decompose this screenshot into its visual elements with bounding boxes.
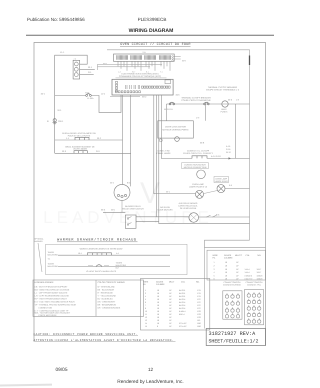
connector J2 grid	[245, 290, 264, 325]
connector strip P2	[114, 54, 175, 61]
svg-text:18: 18	[225, 268, 227, 271]
junction arrow	[229, 157, 231, 159]
resistor lights element	[75, 137, 89, 140]
EOC internal component ticks	[126, 85, 140, 89]
svg-text:LAMPE FOUR: LAMPE FOUR	[215, 180, 229, 183]
svg-text:1/86: 1/86	[197, 322, 201, 325]
svg-text:18: 18	[157, 289, 159, 292]
svg-text:GN-1: GN-1	[58, 120, 64, 123]
switch door lock aux	[159, 139, 162, 142]
svg-text:WARMER: WARMER	[34, 240, 43, 243]
svg-text:MULT/T: MULT/T	[235, 254, 243, 257]
svg-text:14: 14	[145, 322, 147, 325]
svg-text:CONNECTEUR/EOC: CONNECTEUR/EOC	[223, 283, 242, 286]
connector pins group 3	[145, 55, 156, 59]
svg-text:LO LIGHT SWITCH WARM LIGHTS: LO LIGHT SWITCH WARM LIGHTS	[86, 270, 117, 273]
svg-text:36-1: 36-1	[103, 63, 108, 66]
svg-text:11: 11	[145, 313, 147, 316]
svg-text:MOTEUR VERROU PORTE: MOTEUR VERROU PORTE	[162, 128, 189, 131]
svg-text:1-3: 1-3	[118, 70, 121, 73]
svg-text:CONNECT. PNL: CONNECT. PNL	[247, 283, 261, 286]
svg-text:ELECTRONIC OVEN CONTROL (EOC): ELECTRONIC OVEN CONTROL (EOC)	[122, 73, 159, 76]
svg-text:4: 4	[214, 271, 215, 274]
svg-text:1/517: 1/517	[257, 271, 262, 274]
svg-text:8: 8	[145, 307, 146, 310]
svg-text:6: 6	[214, 277, 215, 280]
motor M3 convection fan	[114, 184, 130, 200]
wire collector 1	[98, 63, 163, 65]
svg-text:BL - BLUE/BLEU: BL - BLUE/BLEU	[98, 297, 114, 300]
wire stubs strip right	[174, 57, 181, 60]
svg-text:B-MB-4: B-MB-4	[179, 310, 185, 313]
svg-text:1/32: 1/32	[197, 310, 201, 313]
svg-text:10-1: 10-1	[41, 93, 46, 96]
wire bus 4	[161, 95, 192, 158]
wire collector 2	[98, 66, 151, 68]
svg-text:FOUR ET DE LA PORTE: FOUR ET DE LA PORTE	[68, 134, 91, 137]
wire lamp to frame	[225, 188, 250, 190]
svg-text:VOUTE 3400W: VOUTE 3400W	[73, 148, 87, 151]
svg-text:36-2: 36-2	[142, 96, 147, 99]
wire drop right	[235, 104, 237, 158]
svg-text:18: 18	[225, 275, 227, 278]
svg-text:18: 18	[157, 301, 159, 304]
svg-text:BK-251: BK-251	[179, 292, 185, 295]
svg-text:NO.: NO.	[258, 254, 262, 257]
svg-text:PLES399ECB: PLES399ECB	[138, 17, 167, 22]
relay door lock motor box	[158, 121, 194, 138]
svg-text:1/86: 1/86	[197, 325, 201, 328]
svg-text:DOOR LOCK MOTOR: DOOR LOCK MOTOR	[165, 126, 186, 129]
parts table upper box	[207, 250, 266, 280]
wire L1 loop	[55, 55, 87, 95]
svg-text:BK-254: BK-254	[179, 304, 185, 307]
svg-text:GN - GREEN/VERT: GN - GREEN/VERT	[98, 300, 117, 303]
svg-text:6: 6	[145, 301, 146, 304]
parts table box	[141, 279, 210, 331]
svg-text:ATTENTION:COUPEZ L'ALIMENTATIO: ATTENTION:COUPEZ L'ALIMENTATION AVANT D'…	[34, 338, 174, 342]
switch S1	[207, 215, 217, 217]
svg-text:4: 4	[145, 295, 146, 298]
caution line 2	[34, 338, 176, 342]
svg-text:1/32: 1/32	[197, 313, 201, 316]
header rule	[26, 34, 274, 36]
ground symbol N	[53, 119, 57, 124]
table header	[143, 281, 200, 287]
wire relay out upper	[136, 216, 156, 218]
svg-text:W-11 D-5: W-11 D-5	[164, 108, 174, 111]
svg-text:18: 18	[225, 277, 227, 280]
svg-text:13: 13	[145, 319, 147, 322]
svg-text:10-1: 10-1	[78, 252, 82, 255]
wire drop to lock box	[205, 104, 207, 121]
svg-text:Y - YELLOW/JAUNE: Y - YELLOW/JAUNE	[98, 294, 117, 297]
svg-text:BK-254: BK-254	[179, 298, 185, 301]
wire collector stub	[97, 64, 99, 70]
svg-text:18: 18	[157, 292, 159, 295]
svg-text:COMM. LAMPE: COMM. LAMPE	[156, 152, 171, 155]
neutral bus wire	[54, 96, 56, 154]
svg-text:R.F - RIGHT FRONT/AVANT DROIT: R.F - RIGHT FRONT/AVANT DROIT	[35, 297, 68, 300]
svg-text:2: 2	[214, 264, 215, 267]
svg-text:1/37: 1/37	[197, 304, 201, 307]
leader line	[38, 243, 42, 272]
table upper header	[213, 254, 262, 259]
svg-text:COUPE-CIRCUIT THERMIQUE L-2: COUPE-CIRCUIT THERMIQUE L-2	[206, 89, 240, 92]
connector J1 grid	[223, 291, 242, 319]
svg-text:12: 12	[148, 367, 154, 372]
label oven lamp boxed	[214, 177, 229, 183]
svg-text:L1-30A: L1-30A	[87, 97, 94, 100]
svg-text:Rendered by LeadVenture, Inc.: Rendered by LeadVenture, Inc.	[117, 379, 183, 385]
svg-text:LEADVENTURE: LEADVENTURE	[43, 208, 213, 227]
svg-text:BK-251: BK-251	[179, 289, 185, 292]
lamp L2	[217, 185, 225, 193]
terminal block TB1	[73, 60, 80, 79]
svg-text:1/3618: 1/3618	[257, 275, 263, 278]
svg-text:15: 15	[145, 325, 147, 328]
EOC right pin header	[142, 86, 171, 88]
svg-text:18: 18	[157, 304, 159, 307]
legend box	[33, 280, 144, 316]
EOC sub connector box	[165, 80, 171, 84]
svg-text:CALIBRE: CALIBRE	[224, 256, 233, 259]
wire W neutral from terminal	[80, 68, 95, 70]
table rows	[145, 289, 201, 328]
svg-text:1/3618: 1/3618	[257, 277, 263, 280]
svg-text:1/37: 1/37	[197, 301, 201, 304]
svg-text:BDE-4: BDE-4	[179, 313, 185, 316]
resistor broil element	[74, 151, 87, 154]
relay K1 blower	[125, 215, 136, 228]
thermostat warmer	[96, 265, 102, 267]
svg-text:L1-1: L1-1	[60, 51, 65, 54]
wire step boundary	[205, 240, 266, 247]
svg-text:PORTE MOTORISE: PORTE MOTORISE	[39, 314, 58, 317]
svg-text:WARM ELEMENT/ELEMENT DE SERRE: WARM ELEMENT/ELEMENT DE SERRE 450W	[80, 247, 123, 250]
wire lamp link	[204, 191, 218, 194]
svg-text:18: 18	[157, 316, 159, 319]
legend rows	[35, 285, 77, 316]
wire drop to lock box left	[166, 104, 168, 121]
lamp L1	[196, 190, 204, 198]
table upper rows	[214, 261, 263, 280]
warmer drawer box	[46, 244, 187, 274]
svg-text:ETN-457: ETN-457	[179, 322, 187, 325]
svg-text:LAMPE FOUR N-13: LAMPE FOUR N-13	[189, 185, 208, 188]
wire bus 1	[154, 95, 196, 194]
svg-text:18: 18	[157, 322, 159, 325]
svg-text:COMM 2: COMM 2	[245, 275, 253, 278]
svg-text:BR - BROWN/BRUN: BR - BROWN/BRUN	[98, 303, 117, 306]
wire enclosure left edge	[204, 248, 206, 329]
motor bias circle	[222, 101, 228, 107]
connector end circles	[172, 56, 174, 62]
svg-text:5: 5	[214, 275, 215, 278]
svg-text:T-1: T-1	[48, 257, 51, 260]
svg-text:1/37: 1/37	[197, 298, 201, 301]
wire into relay	[103, 211, 125, 213]
svg-text:COL/TXT: COL/TXT	[245, 277, 254, 280]
resistor warm element	[88, 253, 112, 255]
fuse F1	[169, 102, 175, 105]
wire lower return	[159, 223, 250, 225]
svg-text:SHEET/FEUILLE:1/2: SHEET/FEUILLE:1/2	[209, 338, 259, 344]
motor M1 door lock	[175, 137, 180, 142]
svg-text:7: 7	[145, 304, 146, 307]
op-amp U1 EOC board	[112, 79, 173, 95]
svg-text:BK - BLACK/NOIR: BK - BLACK/NOIR	[98, 288, 115, 291]
wire L1 feed	[55, 95, 86, 97]
svg-text:COLOR CODES OF WIRING: COLOR CODES OF WIRING	[98, 281, 126, 284]
svg-text:Publication No: 5995449856: Publication No: 5995449856	[27, 17, 85, 22]
resistor convection element	[192, 156, 207, 159]
section title OVEN CIRCUIT	[120, 42, 191, 47]
svg-text:10: 10	[145, 310, 147, 313]
svg-text:T.P - THERMAL PROTECTOR/PROTEC: T.P - THERMAL PROTECTOR/PROTECTEUR	[35, 303, 77, 306]
scan edge artifact	[0, 384, 52, 387]
svg-text:L.L - LEFT FRONT/AVANT GAUCHE: L.L - LEFT FRONT/AVANT GAUCHE	[35, 291, 68, 294]
svg-text:FUSES: FUSES	[221, 111, 228, 114]
svg-text:1/37: 1/37	[197, 307, 201, 310]
fuse F2	[204, 102, 210, 105]
svg-text:5: 5	[145, 298, 146, 301]
wire below EOC	[110, 96, 140, 98]
svg-text:ETN-457: ETN-457	[179, 325, 187, 328]
wire fan to relay	[121, 200, 123, 212]
label convection motor	[182, 163, 209, 169]
svg-text:COUPE-CIRCUIT THERMIQUE: COUPE-CIRCUIT THERMIQUE	[181, 99, 211, 102]
wire lights row	[55, 139, 123, 141]
dark tick on inner frame	[249, 56, 251, 66]
svg-text:18: 18	[157, 307, 159, 310]
svg-text:18: 18	[157, 313, 159, 316]
wire thermal cutoff	[167, 103, 250, 105]
svg-text:B-2: B-2	[116, 266, 119, 269]
svg-text:18: 18	[225, 264, 227, 267]
svg-text:318271927 REV:A: 318271927 REV:A	[209, 331, 257, 337]
svg-text:CAUTION: DISCONNECT POWER BEFO: CAUTION: DISCONNECT POWER BEFORE SERVICI…	[34, 333, 138, 336]
svg-text:8: 8	[157, 325, 158, 328]
svg-text:W - WHITE/BLANC: W - WHITE/BLANC	[98, 285, 116, 288]
wire relay out	[136, 221, 159, 223]
inner oven-circuit frame	[107, 50, 250, 240]
svg-text:L.R - LEFT REAR/ARRIERE GAUCHE: L.R - LEFT REAR/ARRIERE GAUCHE	[35, 294, 70, 297]
svg-text:CALIBRE: CALIBRE	[156, 283, 165, 286]
svg-text:A-14 D-18: A-14 D-18	[211, 155, 221, 158]
svg-text:18: 18	[157, 295, 159, 298]
svg-text:1: 1	[214, 261, 215, 264]
svg-text:1: 1	[145, 289, 146, 292]
svg-text:MOTEUR CONVECTION: MOTEUR CONVECTION	[184, 166, 207, 169]
legend divider	[95, 280, 97, 316]
EOC bottom pin row	[116, 91, 141, 93]
caution line 1	[34, 333, 139, 336]
svg-text:Y-1: Y-1	[160, 70, 163, 73]
svg-text:1/75: 1/75	[197, 289, 201, 292]
svg-text:18: 18	[157, 298, 159, 301]
svg-text:COUPE-CIRCUIT EL. CONVECT.: COUPE-CIRCUIT EL. CONVECT.	[183, 152, 214, 155]
node labels below strip	[118, 70, 163, 73]
svg-text:B.B - BAKE RELAY/RELAIS CUISSO: B.B - BAKE RELAY/RELAIS CUISSON	[35, 288, 70, 291]
wire motor feed right	[130, 95, 132, 186]
EOC left pin squares	[116, 81, 118, 91]
svg-text:18: 18	[157, 319, 159, 322]
svg-text:V: V	[140, 177, 160, 210]
svg-text:THERMAL CUTOFF BREAKER: THERMAL CUTOFF BREAKER	[181, 97, 211, 100]
svg-text:1/32: 1/32	[197, 316, 201, 319]
motor M4 blower	[189, 213, 199, 223]
color codes rows	[98, 285, 121, 309]
motor M2 convection	[197, 170, 206, 179]
svg-text:150: 150	[197, 319, 200, 322]
svg-text:09/05: 09/05	[56, 367, 68, 373]
svg-text:1-W-4: 1-W-4	[245, 268, 250, 271]
svg-text:BK-251: BK-251	[179, 295, 185, 298]
connector pins group 4	[160, 55, 171, 59]
svg-text:BK-254: BK-254	[179, 301, 185, 304]
wire warmer row 2	[58, 266, 170, 268]
svg-text:MULT: MULT	[169, 281, 175, 284]
wire convection row right	[207, 157, 250, 159]
wire bus 2	[156, 95, 189, 217]
outer frame	[34, 43, 266, 346]
wire broil row	[55, 152, 131, 154]
wire drops from strip	[118, 61, 170, 71]
svg-text:18: 18	[225, 271, 227, 274]
svg-text:TOD: TOD	[85, 92, 90, 95]
section title WARMER DRAWER	[57, 238, 138, 243]
svg-text:THERMAL CUTOFF BREAKER: THERMAL CUTOFF BREAKER	[208, 86, 238, 89]
svg-text:A-1: A-1	[116, 252, 119, 255]
wire blower right	[199, 216, 250, 218]
svg-text:WIRING DIAGRAM: WIRING DIAGRAM	[129, 28, 174, 34]
svg-text:18: 18	[225, 261, 227, 264]
svg-text:1/517: 1/517	[257, 268, 262, 271]
relay contacts	[127, 217, 131, 226]
svg-text:MINUTERIE: MINUTERIE	[48, 265, 59, 268]
svg-text:MINUTERIE: MINUTERIE	[48, 254, 59, 257]
svg-text:BK-254: BK-254	[179, 307, 185, 310]
fuse TOD thermal overload	[86, 94, 92, 97]
connector pins group 1	[117, 55, 128, 59]
svg-text:1-W-4: 1-W-4	[245, 271, 250, 274]
svg-text:2: 2	[145, 292, 146, 295]
svg-text:1/75: 1/75	[197, 295, 201, 298]
svg-text:R - RED/ROUGE: R - RED/ROUGE	[98, 291, 114, 294]
svg-text:3: 3	[214, 268, 215, 271]
svg-text:CONNECTION: CONNECTION	[39, 306, 53, 309]
svg-text:NO.: NO.	[196, 281, 200, 284]
wire TOD to EOC	[91, 95, 121, 112]
svg-text:E.S - EOC SWITCH/COMMUTATEUR F: E.S - EOC SWITCH/COMMUTATEUR FOUR	[35, 300, 76, 303]
wire warmer row 1	[58, 254, 170, 256]
svg-text:OR - ORANGE/ORANGE: OR - ORANGE/ORANGE	[98, 306, 121, 309]
svg-text:1/75: 1/75	[197, 292, 201, 295]
svg-text:12: 12	[145, 316, 147, 319]
wire R from terminal	[80, 73, 94, 75]
connector pins group 2	[131, 55, 142, 59]
svg-text:18: 18	[157, 310, 159, 313]
svg-text:CB - ANTI-TIP BRACKET/SUPPORT: CB - ANTI-TIP BRACKET/SUPPORT	[35, 285, 69, 288]
wire motor feed left	[122, 95, 124, 185]
title block	[206, 329, 265, 346]
wire bus 3	[158, 95, 160, 224]
svg-text:LEGEND/LEGENDE: LEGEND/LEGENDE	[35, 281, 55, 284]
